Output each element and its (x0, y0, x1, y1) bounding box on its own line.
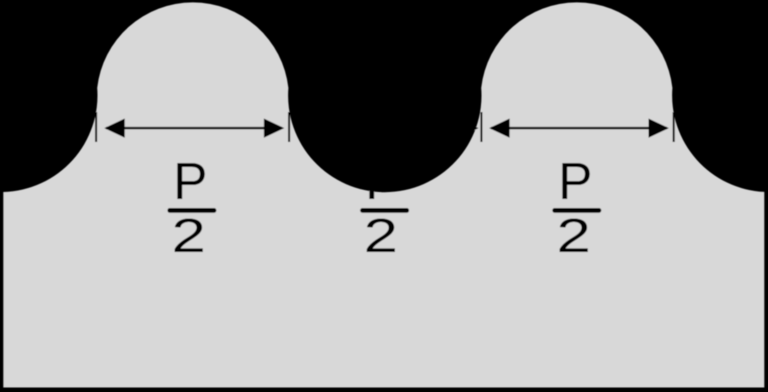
dimension arrow 1 (left crest width) (104, 119, 284, 138)
dimension arrow 2 (middle root width, mostly hidden by root) (297, 119, 478, 138)
extension tick 4 (673, 112, 675, 142)
extension tick 3 (480, 112, 482, 142)
svg-text:2: 2 (557, 208, 591, 262)
extension tick 1 (95, 112, 97, 142)
label P/2 right: fraction bar (555, 208, 599, 213)
extension tick 2 (288, 112, 290, 142)
svg-text:P: P (558, 152, 592, 210)
dimension arrow 3 (right crest width) (489, 119, 669, 138)
svg-text:P: P (173, 152, 207, 210)
label P/2 left: fraction bar (170, 208, 214, 213)
label P/2 middle: fraction bar (363, 208, 407, 213)
svg-text:2: 2 (364, 208, 398, 262)
svg-text:P: P (365, 152, 399, 210)
svg-text:2: 2 (172, 208, 206, 262)
